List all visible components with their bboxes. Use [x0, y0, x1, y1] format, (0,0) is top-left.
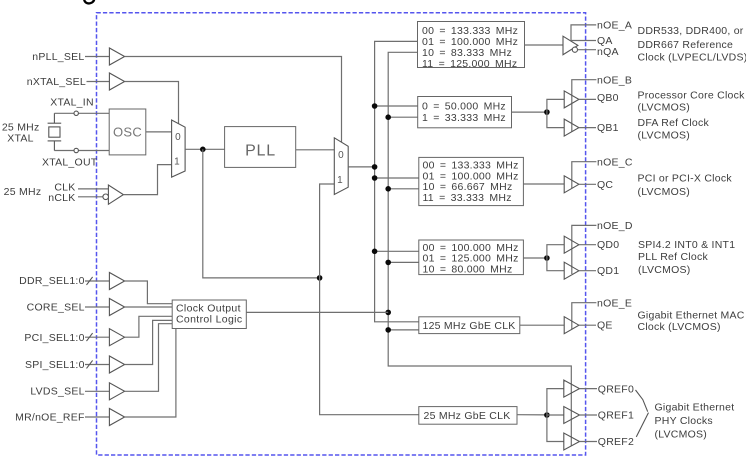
svg-text:OSC: OSC [113, 125, 142, 140]
svg-text:11 = 125.000 MHz: 11 = 125.000 MHz [422, 58, 517, 70]
svg-text:XTAL_OUT: XTAL_OUT [42, 157, 98, 169]
wire nOE_B [572, 80, 597, 132]
buffer QREF0 [564, 380, 580, 397]
svg-text:(LVCMOS): (LVCMOS) [638, 264, 691, 276]
block 25 MHz GbE CLK [419, 407, 517, 425]
svg-text:nOE_E: nOE_E [597, 297, 632, 309]
net bus A (PLL clock) [375, 41, 419, 321]
wire [580, 388, 598, 390]
wire [85, 56, 110, 58]
wire [580, 441, 598, 443]
wire [146, 131, 172, 133]
divider table D [419, 240, 524, 276]
wire [246, 311, 388, 313]
buffer CORE_SEL [109, 299, 124, 316]
svg-text:25 MHz GbE CLK: 25 MHz GbE CLK [424, 410, 511, 422]
wire nOE_E [572, 303, 597, 329]
svg-text:Control Logic: Control Logic [176, 313, 242, 325]
svg-text:QREF0: QREF0 [598, 383, 634, 395]
wire [512, 111, 547, 113]
label output A description [638, 25, 746, 63]
junction [372, 103, 378, 109]
wire [579, 270, 596, 272]
mux M2 [334, 138, 348, 195]
buffer QB1 [564, 119, 579, 136]
svg-text:PHY Clocks: PHY Clocks [655, 415, 713, 427]
svg-text:PCI_SEL1:0: PCI_SEL1:0 [24, 332, 84, 344]
svg-text:1: 1 [337, 175, 343, 186]
wire [54, 150, 109, 152]
svg-text:nOE_A: nOE_A [597, 20, 632, 32]
wire nOE_D [572, 225, 597, 274]
svg-text:XTAL_IN: XTAL_IN [50, 97, 94, 109]
svg-text:XTAL: XTAL [7, 133, 33, 145]
net bus B (control) [388, 52, 571, 446]
wire [125, 329, 176, 418]
wire [375, 105, 418, 107]
pin nCLK bubble [103, 194, 109, 200]
svg-text:(LVCMOS): (LVCMOS) [638, 186, 691, 198]
svg-text:(LVCMOS): (LVCMOS) [655, 429, 708, 441]
buffer PCI_SEL [109, 329, 124, 346]
bus slash [87, 360, 93, 368]
wire [375, 250, 419, 252]
wire [388, 116, 418, 118]
wire [579, 98, 596, 100]
wire [125, 316, 173, 337]
buffer QA differential [563, 36, 578, 55]
svg-text:11 = 33.333 MHz: 11 = 33.333 MHz [423, 192, 512, 204]
wire [125, 320, 173, 364]
buffer QREF1 [564, 407, 580, 424]
svg-text:CORE_SEL: CORE_SEL [27, 302, 85, 314]
buffer DDR_SEL [109, 273, 124, 290]
divider table B [418, 97, 512, 128]
svg-text:SPI_SEL1:0: SPI_SEL1:0 [25, 359, 85, 371]
control logic U2 [172, 300, 246, 329]
svg-text:Processor Core Clock: Processor Core Clock [638, 89, 746, 101]
wire [523, 257, 547, 259]
svg-text:PCI or PCI-X Clock: PCI or PCI-X Clock [638, 173, 733, 185]
wire [78, 196, 103, 198]
wire nOE_A [571, 25, 596, 40]
svg-text:QD1: QD1 [597, 265, 619, 277]
junction [372, 249, 378, 255]
block 125 MHz GbE CLK [419, 317, 520, 334]
svg-text:1: 1 [174, 157, 180, 168]
svg-text:Clock (LVCMOS): Clock (LVCMOS) [638, 321, 721, 333]
buffer MR/nOE_REF [109, 409, 124, 426]
wire [348, 166, 374, 168]
junction [544, 255, 550, 261]
svg-text:PLL: PLL [245, 142, 276, 159]
svg-text:QE: QE [597, 320, 613, 332]
label output B description [638, 89, 746, 141]
wire [125, 281, 173, 304]
label output D description [638, 239, 735, 276]
wire [125, 57, 342, 143]
wire [523, 183, 564, 185]
wire [54, 112, 109, 114]
wire [85, 306, 109, 308]
svg-text:nCLK: nCLK [48, 192, 75, 204]
mux M1 [172, 120, 186, 177]
wire [375, 177, 419, 179]
wire [547, 245, 564, 271]
buffer SPI_SEL [109, 356, 124, 373]
junction [317, 275, 323, 281]
wire [579, 183, 596, 185]
wire [185, 148, 225, 150]
wire [547, 414, 564, 416]
buffer QD1 [564, 262, 579, 279]
svg-text:SPI4.2 INT0 & INT1: SPI4.2 INT0 & INT1 [638, 239, 735, 251]
svg-text:DDR533, DDR400, or: DDR533, DDR400, or [638, 25, 744, 37]
wire [85, 336, 109, 338]
wire [78, 188, 108, 190]
buffer CLK input [108, 185, 123, 204]
wire [125, 324, 173, 392]
svg-text:QREF1: QREF1 [598, 410, 634, 422]
wire [547, 389, 564, 442]
label output F description [636, 390, 735, 441]
label output E description [638, 309, 745, 333]
svg-text:QD0: QD0 [597, 239, 619, 251]
svg-text:1 = 33.333 MHz: 1 = 33.333 MHz [422, 112, 506, 124]
svg-text:Gigabit Ethernet: Gigabit Ethernet [655, 402, 735, 414]
wire [547, 99, 564, 127]
crystal Y1 25 MHz [2, 113, 61, 150]
junction [544, 109, 550, 115]
junction [200, 147, 206, 153]
divider table A [418, 22, 525, 70]
svg-text:0: 0 [338, 150, 344, 161]
junction [385, 114, 391, 120]
svg-text:25 MHz: 25 MHz [4, 186, 42, 198]
junction [385, 310, 391, 316]
svg-text:nOE_B: nOE_B [597, 74, 632, 86]
wire [85, 280, 109, 282]
svg-text:QB1: QB1 [597, 122, 619, 134]
svg-text:Gigabit Ethernet MAC: Gigabit Ethernet MAC [638, 309, 745, 321]
junction [385, 186, 391, 192]
svg-text:125 MHz GbE CLK: 125 MHz GbE CLK [423, 320, 516, 332]
wire [579, 127, 596, 129]
svg-text:DFA Ref Clock: DFA Ref Clock [638, 117, 710, 129]
wire [320, 184, 419, 415]
wire [296, 149, 335, 151]
svg-text:nQA: nQA [597, 46, 619, 58]
junction [544, 412, 550, 418]
wire [125, 306, 173, 308]
buffer QE [564, 317, 579, 334]
bus slash [87, 333, 93, 341]
pin nQA bubble [572, 47, 577, 52]
wire [517, 414, 547, 416]
wire [85, 416, 109, 418]
buffer QC [564, 176, 579, 193]
pin XTAL_IN [74, 111, 78, 115]
svg-text:10 = 80.000 MHz: 10 = 80.000 MHz [423, 264, 513, 276]
wire [203, 149, 320, 278]
bus slash [87, 277, 93, 285]
pll U1 [225, 127, 296, 168]
wire nOE_C [572, 162, 597, 188]
wire [85, 364, 109, 366]
wire [525, 44, 564, 46]
wire [388, 188, 419, 190]
svg-text:(LVCMOS): (LVCMOS) [638, 129, 691, 141]
buffer nXTAL_SEL [109, 73, 124, 90]
buffer LVDS_SEL [109, 383, 124, 400]
wire [123, 165, 171, 195]
svg-text:0 = 50.000 MHz: 0 = 50.000 MHz [422, 101, 506, 113]
wire [579, 244, 596, 246]
junction [385, 327, 391, 333]
wire [388, 261, 419, 263]
buffer nPLL_SEL [109, 48, 124, 65]
wire nQA out [578, 49, 597, 51]
svg-text:nPLL_SEL: nPLL_SEL [32, 51, 84, 63]
svg-text:QC: QC [597, 179, 613, 191]
pin XTAL_OUT [74, 148, 78, 152]
svg-text:nOE_D: nOE_D [597, 220, 633, 232]
wire [388, 329, 419, 331]
wire [579, 324, 596, 326]
svg-text:LVDS_SEL: LVDS_SEL [30, 386, 84, 398]
buffer QB0 [564, 91, 579, 108]
svg-text:01 = 125.000 MHz: 01 = 125.000 MHz [423, 252, 519, 264]
svg-text:QREF2: QREF2 [598, 436, 634, 448]
buffer QREF2 [564, 433, 580, 450]
wire QA out [571, 40, 597, 42]
wire [85, 390, 109, 392]
wire [125, 82, 179, 124]
svg-text:0: 0 [175, 132, 181, 143]
buffer QD0 [564, 236, 579, 253]
svg-text:Clock (LVPECL/LVDS): Clock (LVPECL/LVDS) [638, 51, 746, 63]
svg-text:QB0: QB0 [597, 92, 619, 104]
divider table C [419, 157, 524, 205]
svg-text:DDR667 Reference: DDR667 Reference [638, 39, 734, 51]
wire [520, 324, 564, 326]
svg-text:DDR_SEL1:0: DDR_SEL1:0 [19, 275, 85, 287]
wire [87, 81, 110, 83]
svg-text:nXTAL_SEL: nXTAL_SEL [27, 76, 86, 88]
junction [385, 260, 391, 266]
wire [580, 414, 598, 416]
svg-text:(LVCMOS): (LVCMOS) [638, 102, 691, 114]
svg-text:PLL Ref Clock: PLL Ref Clock [638, 251, 708, 263]
svg-text:nOE_C: nOE_C [597, 156, 633, 168]
junction [372, 164, 378, 170]
junction [372, 175, 378, 181]
svg-text:MR/nOE_REF: MR/nOE_REF [15, 412, 85, 424]
label output C description [638, 173, 733, 198]
oscillator OSC [109, 109, 146, 155]
